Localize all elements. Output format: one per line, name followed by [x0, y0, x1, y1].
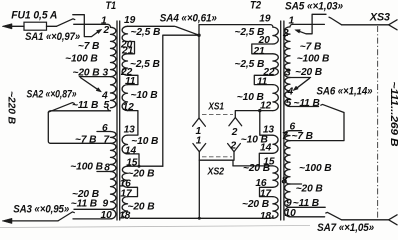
node input line L (to mains): [2, 24, 24, 29]
pin 4 label (T1): [101, 91, 108, 102]
switch SA5 arm: [329, 17, 342, 25]
switch SA4 arm: [176, 27, 200, 36]
svg-text:18: 18: [260, 211, 272, 222]
svg-text:SA7 «×1,05»: SA7 «×1,05»: [317, 222, 374, 233]
wire jumper pins 20-21 of T2: [252, 44, 273, 54]
svg-text:SA4 «×0,61»: SA4 «×0,61»: [160, 12, 217, 24]
pin 1 label (T2): [289, 15, 295, 26]
T1 secondary winding 19-20: [122, 26, 127, 41]
T2 primary winding section 1-3: [285, 27, 290, 78]
pin 20 label (T1): [120, 39, 133, 50]
pin 21 label (T2): [252, 46, 265, 57]
svg-text:10: 10: [101, 210, 113, 221]
switch SA3 arm: [58, 212, 74, 221]
svg-text:SA6 «×1,14»: SA6 «×1,14»: [317, 85, 373, 97]
pin 11 label (T2): [257, 77, 268, 88]
switch SA6 label: [317, 85, 373, 97]
T1 primary winding section 7-8: [111, 143, 116, 171]
svg-text:2: 2: [282, 28, 289, 39]
T2 primary winding section 7-8: [285, 141, 290, 184]
svg-text:17: 17: [260, 188, 273, 199]
switch SA5 label: [285, 1, 343, 13]
T2 secondary winding 17-18: [273, 197, 278, 219]
wire XS2 bar to pin 15 of T2: [233, 165, 273, 167]
wire SA4 node to pin 15 of T1: [163, 35, 199, 166]
T1 primary winding section 4-5: [111, 93, 116, 108]
pin 3 label (T1): [103, 68, 109, 79]
pin 20 label (T2): [258, 35, 271, 46]
svg-text:XS2: XS2: [207, 167, 225, 178]
T2 value label ~20V (15-16): [243, 163, 270, 174]
T2 secondary winding 19-20: [273, 27, 278, 44]
T2 value label ~11V (upper): [294, 98, 320, 109]
T1 primary winding section 9-10: [111, 209, 116, 219]
pin 15 label (T2): [263, 157, 275, 168]
T2 secondary winding 11-12: [273, 85, 278, 111]
switch SA3 label: [13, 203, 69, 215]
node ~220V input label: [6, 91, 17, 124]
T2 secondary winding 15-16: [273, 166, 278, 187]
pin 8 label (T1): [104, 163, 110, 174]
T1 value label ~100V (lower): [70, 161, 103, 172]
svg-text:21: 21: [252, 46, 265, 57]
pin 5 label (T1): [104, 100, 110, 111]
svg-text:T2: T2: [250, 0, 261, 12]
svg-text:~2,5 В: ~2,5 В: [235, 59, 265, 70]
wire SA6 common to pin 7 of T2: [290, 113, 344, 141]
wire pin 6 stub of T1: [97, 131, 111, 133]
wire pin 5 of T2: [290, 106, 319, 108]
T1 value label ~2,5V (21-22): [130, 59, 160, 70]
junction pin 12 of T2: [258, 109, 261, 112]
T2 primary winding section 6-7: [285, 131, 290, 141]
svg-text:SA1 «×0,97»: SA1 «×0,97»: [25, 31, 80, 43]
wire pin 1 of T2: [290, 24, 324, 27]
svg-text:5: 5: [104, 100, 110, 111]
switch SA2 arm: [48, 103, 74, 113]
wire pin 15 of T1 to SA4 node: [128, 165, 163, 167]
pin 2 label (XS1): [231, 127, 238, 138]
T1 secondary winding 17-18: [122, 197, 127, 219]
svg-text:19: 19: [259, 14, 271, 25]
connector XS1 boundary (dashed): [202, 114, 233, 116]
svg-text:5: 5: [286, 98, 292, 109]
T1 value label ~20V (17-18): [128, 202, 155, 213]
pin 8 label (T2): [282, 175, 288, 186]
svg-text:~20 В: ~20 В: [128, 202, 155, 213]
svg-text:10: 10: [285, 208, 297, 219]
wire SA4 node to pin 19 of T2 (top run): [199, 25, 273, 36]
pin 11 label (T1): [125, 76, 136, 87]
T1 value label ~20V (lower): [72, 189, 99, 200]
T1 secondary winding 21-22: [122, 54, 127, 76]
svg-text:13: 13: [124, 124, 136, 135]
T1 value label ~10V (13-14): [131, 136, 158, 147]
wire pin 6 stub of T2: [290, 130, 302, 132]
pin 22 label (T2): [262, 67, 275, 78]
T2 value label ~20V (17-18): [242, 199, 269, 210]
wire SA7 common to XS3 contact 2: [342, 219, 389, 221]
pin 14 label (T1): [125, 145, 137, 156]
T1 secondary winding 13-14: [122, 135, 127, 154]
wire SA1 contact to pin 1 of T1: [74, 24, 111, 27]
wire jumper pins 16-17 of T2: [260, 187, 273, 196]
wire SA4 node to XS1 pin 1: [198, 35, 200, 118]
svg-text:~100 В: ~100 В: [65, 54, 98, 65]
fuse FU1 value label: [11, 10, 57, 22]
switch SA4 label: [160, 12, 217, 24]
svg-text:XS1: XS1: [208, 101, 225, 112]
pin 19 label (T1): [124, 15, 136, 26]
transformer T2 label: [250, 0, 261, 12]
svg-text:~220 В: ~220 В: [6, 91, 17, 124]
node ~111...269V output label: [388, 82, 398, 147]
svg-text:~20 В: ~20 В: [296, 184, 323, 195]
connector XS1 contact 2: [229, 118, 242, 126]
T2 secondary winding 21-22: [273, 54, 278, 76]
T1 primary winding section 1-3: [111, 27, 116, 76]
T2 primary winding section 9-10: [285, 207, 290, 217]
svg-text:11: 11: [257, 77, 268, 88]
scan artifact line (bottom): [0, 226, 310, 228]
T1 value label ~100V (upper): [65, 54, 98, 65]
svg-text:~11 В: ~11 В: [72, 100, 98, 111]
pin 13 label (T2): [263, 124, 275, 135]
junction XS2 pin1 / bottom run: [198, 217, 201, 220]
pin 10 label (T2): [285, 208, 297, 219]
wire pin 19 of T1: [128, 25, 175, 27]
wire jumper pins 12-13 of T2: [260, 111, 273, 136]
T1 value label ~11V (lower): [71, 198, 97, 209]
pin 6 label (T2): [290, 122, 296, 133]
wire pin 8 stub of T1: [97, 171, 111, 173]
T2 value label ~7V (upper): [300, 42, 321, 53]
svg-text:XS3: XS3: [369, 12, 390, 24]
wire SA5 common to XS3 contact 1: [342, 24, 389, 26]
svg-text:~7 В: ~7 В: [300, 42, 321, 53]
svg-text:~2,5 В: ~2,5 В: [131, 27, 161, 38]
connector XS3 label: [369, 12, 390, 24]
pin 9 label (T2): [286, 198, 292, 209]
connector XS3 contact 2: [389, 215, 398, 225]
pin 19 label (T2): [259, 14, 271, 25]
T2 value label ~11V (lower): [293, 198, 319, 209]
pin 1 label (XS1): [196, 126, 202, 137]
svg-text:2: 2: [103, 25, 110, 36]
svg-text:SA2 «×0,87»: SA2 «×0,87»: [27, 88, 77, 100]
svg-text:6: 6: [102, 123, 108, 134]
T1 primary winding section 8-9: [111, 172, 116, 210]
pin 22 label (T1): [120, 67, 133, 78]
connector XS2 label: [207, 167, 225, 178]
pin 18 label (T1): [119, 210, 131, 221]
svg-text:2: 2: [230, 141, 237, 152]
connector XS2 contact 2: [228, 144, 241, 152]
svg-text:~7 В: ~7 В: [78, 41, 99, 52]
pin 16 label (T2): [255, 178, 267, 189]
svg-text:12: 12: [123, 102, 135, 113]
wire pin 18 of T2 corner: [270, 216, 273, 219]
svg-text:~2,5 В: ~2,5 В: [130, 59, 160, 70]
wire pin 5 of T1 to pin 7: [48, 108, 110, 144]
pin 16 label (T1): [120, 178, 132, 189]
wire bottom run (T1 pin 18 to T2 pin 18): [130, 217, 270, 219]
pin 4 label (T2): [287, 87, 294, 98]
svg-text:~111...269 В: ~111...269 В: [388, 82, 398, 147]
T1 secondary winding 11-12: [122, 85, 127, 111]
svg-text:~100 В: ~100 В: [297, 54, 330, 65]
svg-text:~20 В: ~20 В: [295, 67, 322, 78]
T1 value label ~20V (15-16): [127, 169, 154, 180]
svg-text:18: 18: [119, 210, 131, 221]
pin 10 label (T1): [101, 210, 113, 221]
switch gang link SA5-SA6-SA7 (dash-dot): [377, 26, 379, 219]
T1 value label ~20V (upper): [73, 68, 100, 79]
svg-text:9: 9: [103, 198, 109, 209]
T1 primary winding section 3-4: [111, 77, 116, 93]
T2 value label ~7V (lower): [292, 131, 313, 142]
svg-text:~20 В: ~20 В: [127, 169, 154, 180]
T1 secondary winding 15-16: [122, 166, 127, 187]
wire SA1 contact to tap 2 of T1: [73, 15, 102, 37]
pin 2 label (T1): [103, 25, 110, 36]
svg-text:~11 В: ~11 В: [71, 198, 97, 209]
wire jumper pins 12-13 of T1: [128, 111, 138, 136]
T2 value label ~10V (13-14): [241, 134, 268, 145]
T2 primary winding section 8-9: [285, 184, 290, 207]
T1 value label ~2,5V (19-20): [131, 27, 161, 38]
T2 value label ~100V (upper): [297, 54, 330, 65]
svg-text:~11 В: ~11 В: [294, 98, 320, 109]
pin 1 label (T1): [101, 15, 107, 26]
pin 18 label (T2): [260, 211, 272, 222]
wire jumper pins 22-11 of T1: [128, 75, 138, 84]
transformer T1 core: [117, 21, 120, 220]
connector XS2 boundary (dashed): [202, 156, 232, 158]
transformer T1 label: [106, 0, 117, 12]
svg-text:T1: T1: [106, 0, 117, 12]
pin 13 label (T1): [124, 124, 136, 135]
svg-text:15: 15: [126, 158, 138, 169]
svg-text:~20 В: ~20 В: [243, 163, 270, 174]
pin 5 label (T2): [286, 98, 292, 109]
pin 9 label (T1): [103, 198, 109, 209]
svg-text:~7 В: ~7 В: [75, 135, 96, 146]
pin 7 label (T1): [104, 135, 111, 146]
T1 value label ~7V (upper): [78, 41, 99, 52]
wire jumper pins 14-15 of T2: [259, 153, 273, 166]
T2 value label ~20V (lower): [296, 184, 323, 195]
svg-text:~100 В: ~100 В: [70, 161, 103, 172]
wire pin 10 of T2: [290, 216, 325, 218]
wire jumper pins 16-17 of T1: [128, 187, 138, 196]
wire pin 3 of T1: [79, 76, 110, 78]
svg-text:SA3 «×0,95»: SA3 «×0,95»: [13, 203, 69, 215]
svg-text:~20 В: ~20 В: [242, 199, 269, 210]
T2 secondary winding 13-14: [273, 135, 278, 153]
pin 2 label (XS2): [230, 141, 237, 152]
T2 value label ~2,5V (19-20): [235, 27, 265, 38]
svg-text:2: 2: [231, 127, 238, 138]
svg-text:11: 11: [125, 76, 136, 87]
T2 value label ~10V (11-12): [237, 92, 264, 103]
pin 3 label (T2): [285, 68, 291, 79]
wire jumper pins 14-15 of T1: [128, 154, 140, 166]
svg-text:8: 8: [282, 175, 288, 186]
pin 15 label (T1): [126, 158, 138, 169]
connector XS1 contact 1: [193, 118, 206, 126]
svg-text:FU1 0,5 A: FU1 0,5 A: [11, 10, 57, 22]
switch SA1 arm: [57, 19, 75, 27]
wire XS2 shorting bar: [199, 152, 234, 166]
wire XS1 pin 2 to pin 12 of T2: [235, 111, 273, 118]
T2 primary winding section 4-5: [285, 91, 290, 107]
T2 primary winding section 3-4: [285, 78, 290, 92]
wire jumper pins 20-21 of T1: [128, 42, 135, 54]
pin 17 label (T1): [120, 188, 133, 199]
pin 17 label (T2): [260, 188, 273, 199]
wire XS2 pin 1 to bottom run: [198, 160, 200, 218]
wire SA5 contact to tap 2 of T2: [295, 14, 326, 34]
switch SA7 arm: [326, 212, 342, 219]
switch SA6 arm: [321, 104, 344, 112]
T1 value label ~11V (upper): [72, 100, 98, 111]
svg-text:SA5 «×1,03»: SA5 «×1,03»: [285, 1, 343, 13]
pin 1 label (XS2): [196, 135, 202, 146]
pin 6 label (T1): [102, 123, 108, 134]
wire pin3 contact to tap 4 of T1: [81, 78, 102, 92]
svg-text:14: 14: [125, 145, 137, 156]
wire pin 3 of T2: [290, 77, 311, 79]
wire pin 8 stub of T2: [290, 183, 302, 185]
transformer T2 core: [281, 21, 284, 220]
svg-text:12: 12: [260, 101, 272, 112]
pin 7 label (T2): [282, 131, 289, 142]
T2 value label ~100V (lower): [299, 163, 332, 174]
pin 12 label (T1): [123, 102, 135, 113]
T2 value label ~20V (upper): [295, 67, 322, 78]
T1 primary winding section 6-7: [111, 132, 116, 144]
wire pin 9 of T2: [290, 206, 325, 208]
switch SA2 label: [27, 88, 77, 100]
svg-text:~10 В: ~10 В: [131, 90, 158, 101]
junction SA4 node: [197, 34, 200, 37]
svg-text:14: 14: [260, 143, 272, 154]
svg-text:19: 19: [124, 15, 136, 26]
pin 14 label (T2): [260, 143, 272, 154]
T1 value label ~7V (lower): [75, 135, 96, 146]
switch SA1 label: [25, 31, 80, 43]
wire pin 9 of T1: [74, 208, 111, 210]
wire jumper pins 22-11 of T2: [254, 75, 273, 84]
wire pin3 contact to tap 4 of T2: [293, 78, 310, 90]
connector XS3 contact 1: [389, 20, 398, 30]
pin 21 label (T1): [121, 45, 134, 56]
connector XS1 label: [208, 101, 225, 112]
svg-text:~100 В: ~100 В: [299, 163, 332, 174]
switch SA7 label: [317, 222, 374, 234]
junction pins 14-15 of T1: [138, 165, 141, 168]
node output line L2 (bottom left arrow): [2, 218, 58, 223]
T1 value label ~10V (11-12): [131, 90, 158, 101]
fuse FU1: [24, 22, 57, 30]
pin 2 label (T2): [282, 28, 289, 39]
pin 12 label (T2): [260, 101, 272, 112]
svg-text:4: 4: [287, 87, 294, 98]
T2 value label ~2,5V (21-22): [235, 59, 265, 70]
connector XS2 contact 1: [193, 144, 206, 152]
svg-text:1: 1: [196, 135, 202, 146]
wire pin 10 of T1: [73, 218, 111, 220]
svg-text:17: 17: [120, 188, 133, 199]
svg-text:~7 В: ~7 В: [292, 131, 313, 142]
